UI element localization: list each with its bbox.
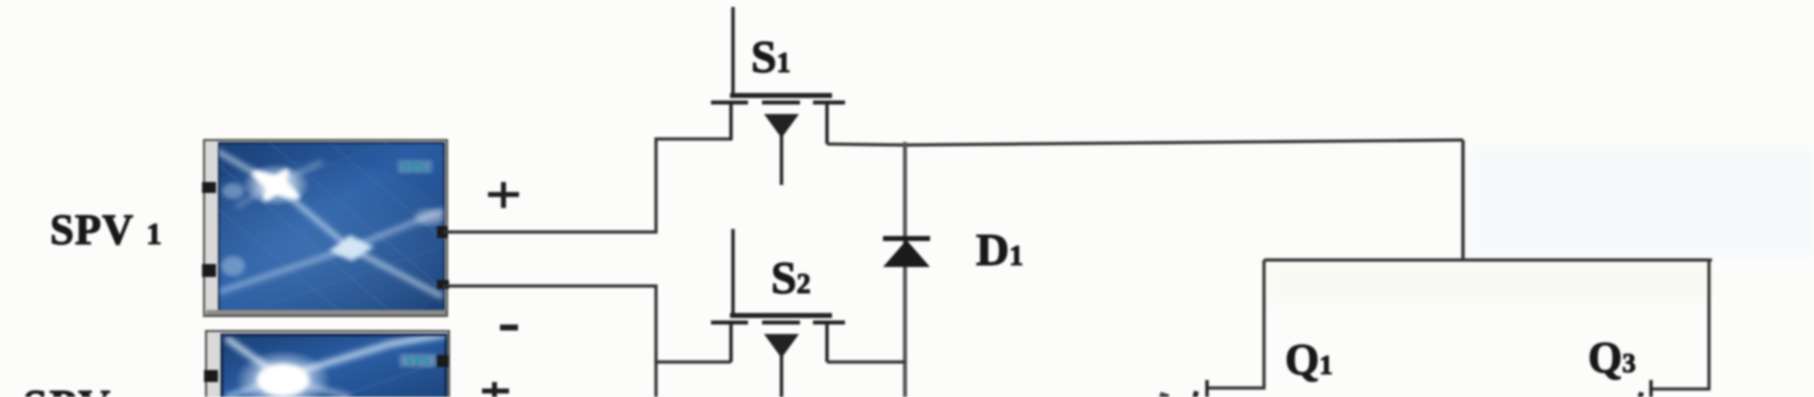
wire SPV1- down to SPV2 (node between panels) [443, 286, 656, 397]
wire S2 right terminal to diode branch [827, 360, 905, 363]
label - (SPV1 negative) [500, 325, 518, 331]
wire branch to S2 left terminal [654, 360, 731, 363]
wire lower rail (to Q1 and Q3) [1264, 258, 1712, 261]
svg-text:YPS: YPS [405, 353, 430, 368]
transistor S1 (MOSFET) [711, 7, 845, 185]
transistor Q3 gate bar (cut off) [1649, 380, 1652, 397]
transistor Q1 body mark (cut off) [1192, 391, 1199, 397]
stray mark (cut-off transistor Q1) [1159, 392, 1169, 397]
wire lower rail down to Q1 collector [1208, 260, 1264, 388]
label + (SPV1 positive) [488, 182, 519, 208]
wire lower rail down to Q3 collector [1652, 260, 1709, 389]
svg-text:YPS: YPS [401, 159, 426, 174]
solar panel SPV1 [160, 122, 460, 340]
flare glow [242, 164, 310, 206]
transistor Q3 body mark (cut off) [1637, 392, 1644, 397]
transistor S2 (MOSFET) [711, 229, 845, 397]
diamond highlight [329, 235, 374, 261]
wire SPV1+ to S1 source side [443, 139, 732, 232]
wire top rail down to lower rail [1461, 140, 1464, 260]
main diagonal beam through flare and diamond [215, 150, 444, 297]
diode D1 [883, 236, 930, 267]
solar panel SPV2 (partially visible) [204, 330, 449, 397]
wire diode branch (vertical through D1) [903, 142, 907, 397]
label + (SPV2 positive, partially visible) [482, 382, 509, 397]
wire S1 drain to node A (top rail) [827, 140, 1463, 145]
transistor Q1 gate bar (cut off) [1205, 380, 1208, 397]
